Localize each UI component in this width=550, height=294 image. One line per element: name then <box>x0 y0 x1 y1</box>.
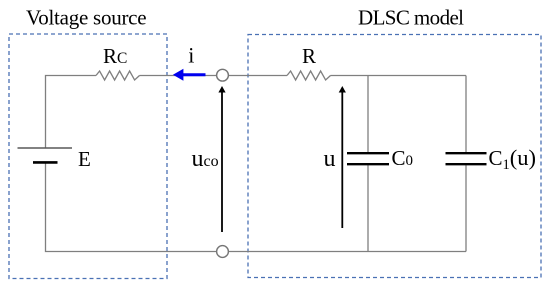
wire: C0 branch upper <box>367 76 369 153</box>
voltage arrow uco <box>218 86 225 232</box>
node B: bottom terminal circle <box>217 246 229 258</box>
svg-text:u: u <box>324 146 336 172</box>
capacitor C1 bottom plate <box>446 163 487 165</box>
wire: C0 branch lower <box>367 165 369 251</box>
battery E long plate <box>18 147 73 149</box>
svg-text:i: i <box>188 43 194 68</box>
current arrow i (blue) <box>173 69 206 81</box>
capacitor C1 top plate <box>446 152 487 154</box>
svg-text:R: R <box>302 44 316 68</box>
wire: R to C1 branch (top rail) <box>331 75 467 77</box>
resistor RC <box>96 71 140 80</box>
wire: RC to top node circle <box>140 75 217 77</box>
svg-text:C1(u): C1(u) <box>489 145 537 173</box>
svg-text:Voltage source: Voltage source <box>26 6 146 30</box>
DLSC model dashed boundary box <box>248 35 541 278</box>
wire: top node circle to resistor R <box>228 75 287 77</box>
svg-text:E: E <box>78 147 91 171</box>
wire: C1 branch upper <box>465 76 467 153</box>
capacitor C0 top plate <box>347 152 389 154</box>
wire: C1 branch lower <box>465 165 467 251</box>
battery E short plate <box>33 161 58 164</box>
svg-text:DLSC model: DLSC model <box>358 6 464 30</box>
wire: bottom node circle to C1 branch (bottom rail) <box>228 251 466 253</box>
voltage source dashed boundary box <box>9 34 167 279</box>
node A: top terminal circle <box>217 69 229 81</box>
wire: battery top vertical + top-left horizontal to resistor RC <box>46 76 97 149</box>
wire: battery bottom vertical + bottom rail to bottom node circle <box>46 163 217 252</box>
capacitor C0 bottom plate <box>347 163 389 165</box>
resistor R <box>287 71 331 80</box>
voltage arrow u <box>339 86 346 228</box>
